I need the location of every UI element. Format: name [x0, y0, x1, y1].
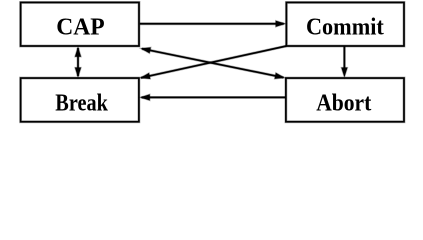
svg-text:Abort: Abort	[316, 91, 371, 117]
svg-text:Commit: Commit	[306, 14, 384, 40]
svg-text:CAP: CAP	[56, 14, 105, 40]
svg-text:Break: Break	[55, 91, 108, 117]
